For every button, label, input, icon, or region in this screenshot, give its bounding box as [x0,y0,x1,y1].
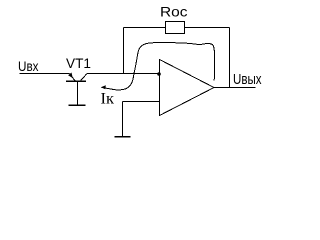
svg-text:Uвх: Uвх [18,58,39,74]
svg-text:VT1: VT1 [66,55,91,71]
svg-text:Roc: Roc [160,5,188,21]
svg-text:Iк: Iк [101,90,115,107]
svg-text:Uвых: Uвых [233,72,262,88]
